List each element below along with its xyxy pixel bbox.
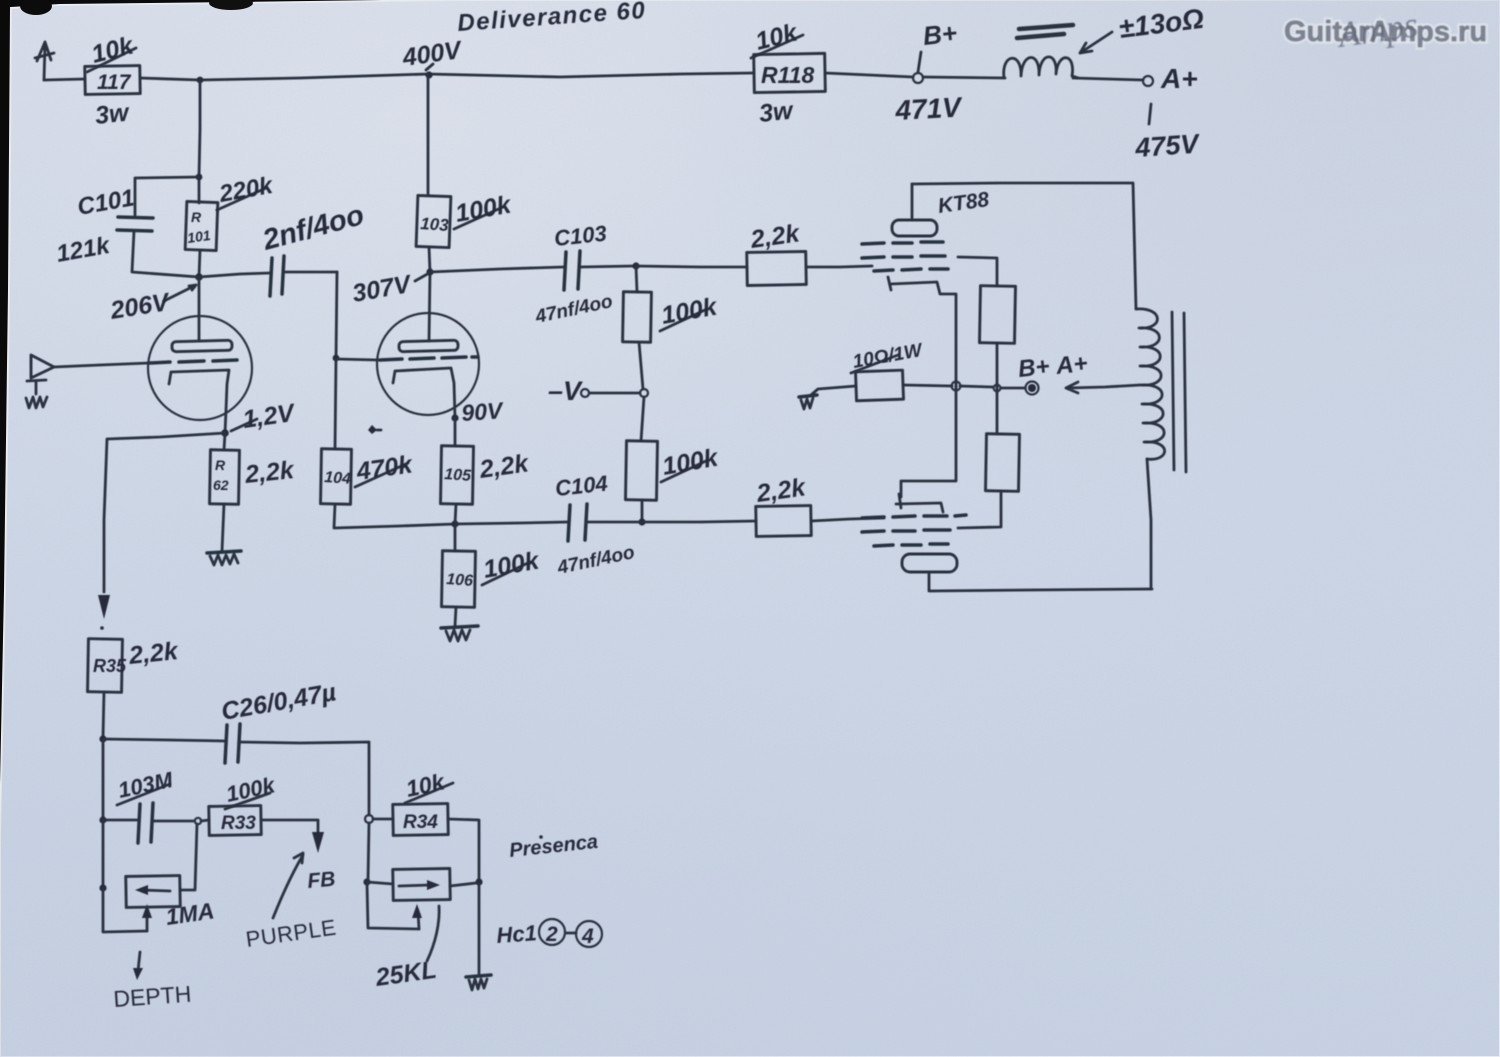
svg-text:475V: 475V (1133, 129, 1201, 164)
svg-text:R34: R34 (403, 812, 438, 833)
svg-text:2: 2 (545, 923, 558, 946)
svg-text:R118: R118 (761, 62, 814, 88)
svg-text:103: 103 (420, 214, 450, 235)
svg-text:471V: 471V (894, 91, 964, 126)
svg-text:3w: 3w (94, 98, 132, 129)
svg-text:2,2k: 2,2k (243, 456, 296, 489)
svg-text:117: 117 (97, 71, 132, 94)
svg-text:106: 106 (446, 571, 474, 590)
svg-text:R35: R35 (93, 656, 127, 676)
svg-text:–V: –V (548, 376, 583, 406)
svg-text:R33: R33 (221, 813, 256, 834)
svg-text:B+: B+ (1017, 353, 1051, 383)
svg-text:104: 104 (324, 469, 352, 488)
svg-text:2,2k: 2,2k (127, 637, 180, 670)
svg-text:Hc1: Hc1 (496, 920, 538, 948)
svg-text:4: 4 (581, 925, 594, 948)
svg-text:FB: FB (306, 868, 336, 893)
svg-text:R: R (215, 457, 226, 473)
svg-text:90V: 90V (461, 397, 505, 426)
svg-text:DEPTH: DEPTH (113, 981, 193, 1012)
svg-text:B+: B+ (921, 18, 958, 51)
svg-text:R: R (191, 209, 202, 225)
svg-text:62: 62 (213, 477, 229, 493)
svg-text:A+: A+ (1160, 63, 1198, 94)
svg-text:A+: A+ (1054, 350, 1089, 380)
svg-text:105: 105 (444, 466, 473, 485)
svg-text:101: 101 (186, 227, 212, 246)
svg-text:3w: 3w (758, 96, 796, 127)
